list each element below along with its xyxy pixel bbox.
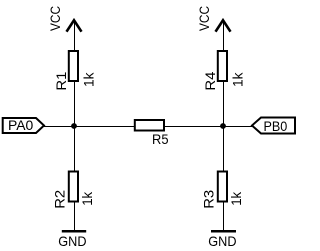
- svg-text:VCC: VCC: [47, 6, 63, 31]
- svg-text:PA0: PA0: [8, 117, 33, 133]
- svg-text:1k: 1k: [230, 72, 246, 87]
- svg-text:VCC: VCC: [196, 6, 212, 31]
- svg-text:1k: 1k: [79, 191, 95, 206]
- svg-text:R3: R3: [200, 190, 216, 209]
- svg-text:R4: R4: [202, 71, 218, 90]
- svg-text:PB0: PB0: [264, 118, 288, 134]
- svg-text:R1: R1: [53, 71, 69, 90]
- svg-text:GND: GND: [208, 233, 236, 249]
- svg-text:R2: R2: [51, 190, 67, 209]
- svg-text:1k: 1k: [81, 72, 97, 87]
- svg-text:R5: R5: [152, 132, 169, 147]
- svg-text:GND: GND: [58, 233, 86, 249]
- svg-text:1k: 1k: [228, 191, 244, 206]
